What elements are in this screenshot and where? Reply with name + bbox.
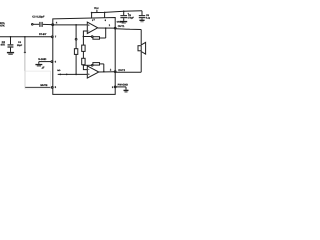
svg-text:S-GND: S-GND bbox=[38, 58, 46, 61]
svg-text:47K: 47K bbox=[0, 24, 5, 27]
svg-text:GND11: GND11 bbox=[117, 21, 125, 24]
svg-text:OUT1: OUT1 bbox=[118, 25, 125, 28]
svg-text:47K: 47K bbox=[1, 44, 6, 47]
svg-text:10µF: 10µF bbox=[17, 44, 23, 47]
svg-text:470µF: 470µF bbox=[127, 17, 134, 20]
svg-text:C3 0.22µF: C3 0.22µF bbox=[32, 15, 45, 18]
svg-text:VCC: VCC bbox=[94, 7, 99, 10]
svg-text:ST-BY: ST-BY bbox=[39, 33, 47, 36]
svg-text:MUTE: MUTE bbox=[40, 84, 47, 87]
svg-text:OUT2: OUT2 bbox=[118, 69, 125, 72]
svg-text:PW-GND: PW-GND bbox=[118, 84, 129, 87]
svg-text:0.1µF: 0.1µF bbox=[146, 17, 150, 20]
